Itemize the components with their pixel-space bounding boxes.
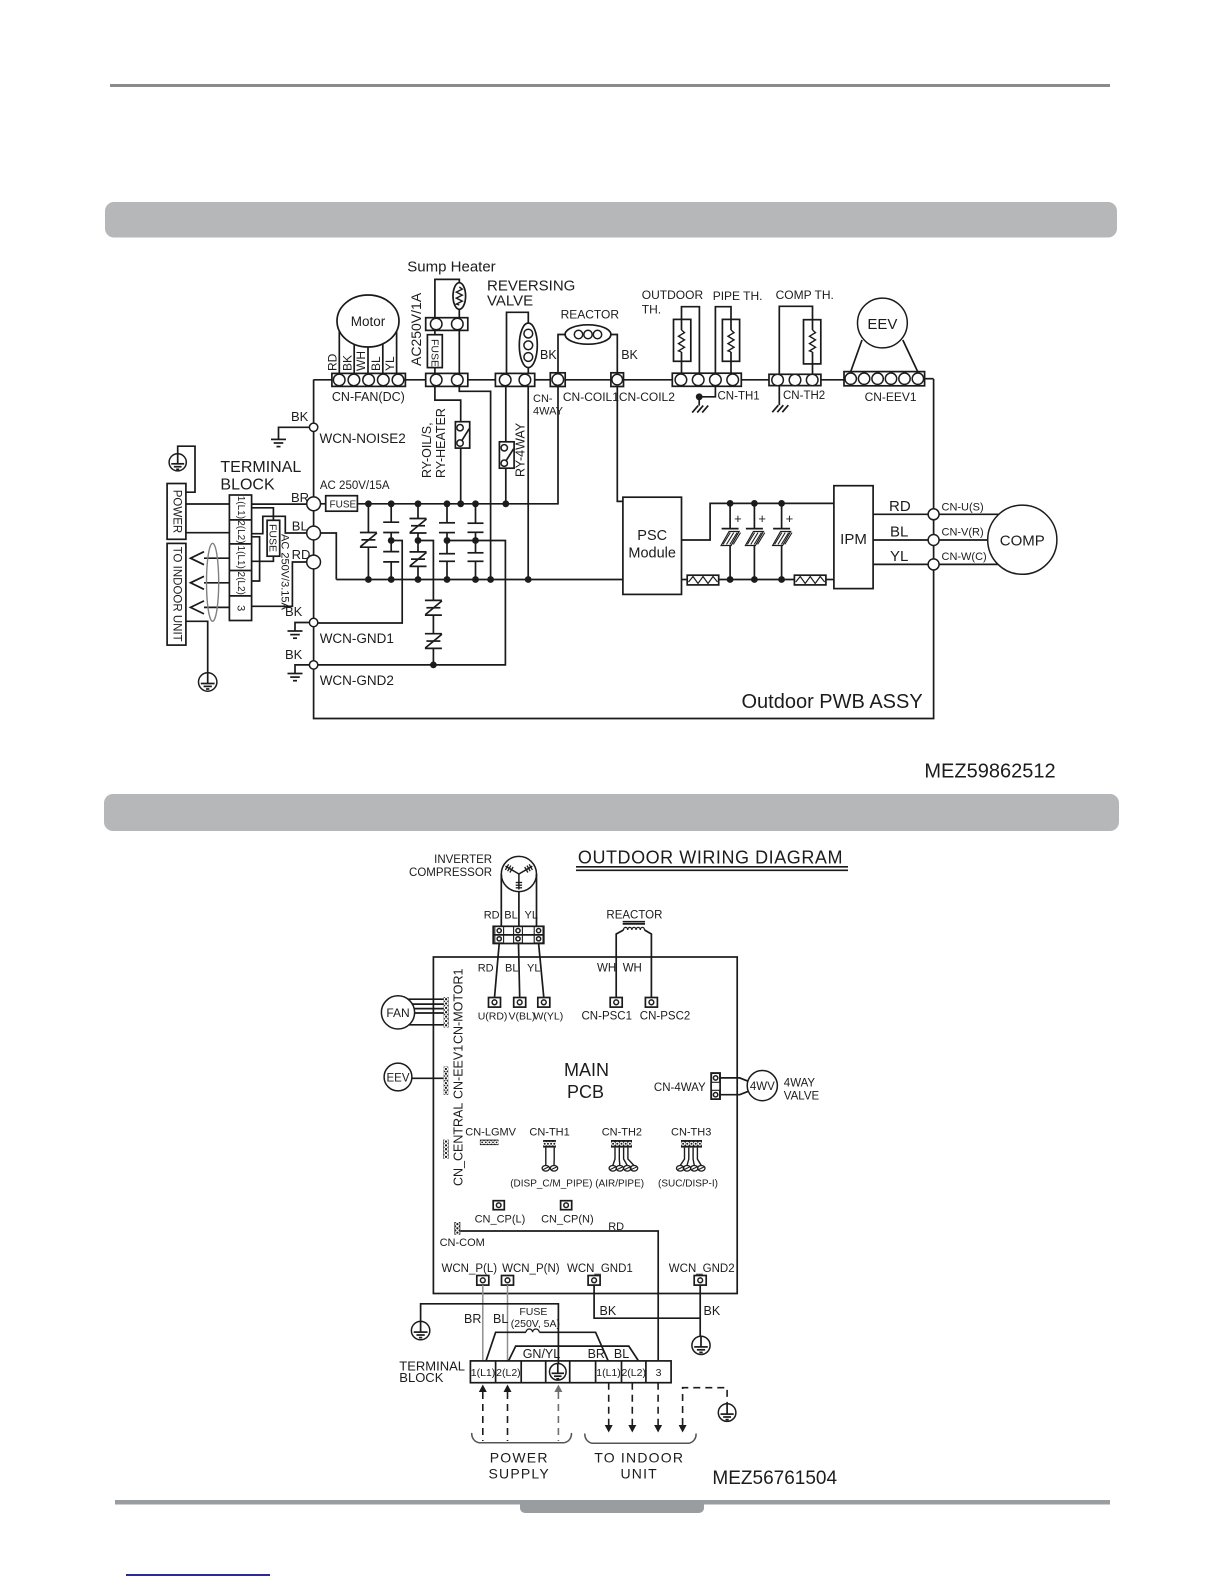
- svg-text:1(L1): 1(L1): [596, 1367, 621, 1379]
- wire BL to terminal: [507, 1285, 509, 1361]
- footer link line: [126, 1574, 270, 1576]
- wires to indoor unit with arrows: [204, 557, 229, 559]
- connector CN-LGMV: [480, 1140, 499, 1146]
- svg-text:+: +: [734, 511, 742, 526]
- svg-text:CN_CP(L): CN_CP(L): [475, 1214, 526, 1226]
- svg-text:RY-OIL/S,: RY-OIL/S,: [420, 422, 434, 478]
- MAIN PCB box: [433, 957, 737, 1294]
- svg-text:CN-LGMV: CN-LGMV: [465, 1126, 516, 1138]
- power supply arrows: [479, 1385, 487, 1393]
- PWB edge BL circle: [307, 526, 321, 540]
- relay RY-OIL/S RY-HEATER: [455, 422, 469, 448]
- wires FAN to CN-MOTOR1: [408, 998, 444, 1000]
- svg-text:BLOCK: BLOCK: [220, 477, 275, 494]
- to indoor arrows: [608, 1383, 610, 1425]
- wire mid row to WCN-GND2 line: [318, 541, 506, 665]
- wire reactor right to CN-COIL2: [611, 335, 617, 373]
- footer tab: [520, 1502, 704, 1513]
- wire relay2 to bus BR: [505, 468, 507, 504]
- wire terminal to BR node: [252, 503, 307, 505]
- svg-text:2(L2): 2(L2): [235, 572, 246, 595]
- svg-text:CN-W(C): CN-W(C): [942, 551, 987, 563]
- brace POWER SUPPLY: [472, 1433, 572, 1443]
- connector CN-4WAY: [495, 373, 534, 386]
- node CN-V(R): [928, 535, 939, 546]
- reactor L1: [565, 325, 611, 344]
- PWB edge BR circle: [307, 497, 321, 511]
- terminal block (top diagram): [229, 495, 251, 621]
- protective earth (GND wires): [692, 1336, 710, 1354]
- connector CN-MOTOR1: [444, 997, 449, 1028]
- svg-text:CN-PSC1: CN-PSC1: [582, 1011, 632, 1023]
- svg-text:(SUC/DISP-I): (SUC/DISP-I): [658, 1178, 718, 1189]
- svg-text:2(L2): 2(L2): [621, 1367, 646, 1379]
- node CN-U(S): [928, 509, 939, 520]
- connector CN-FAN(DC): [332, 373, 406, 386]
- svg-text:COMP TH.: COMP TH.: [776, 288, 834, 302]
- connector CN-TH2 (bottom) with sensors: [611, 1140, 632, 1148]
- svg-text:COMP: COMP: [1000, 533, 1045, 550]
- svg-text:WCN-NOISE2: WCN-NOISE2: [320, 431, 406, 446]
- wire CN-EEV1 to right edge: [925, 378, 934, 380]
- svg-text:4WAY: 4WAY: [784, 1078, 816, 1090]
- connector CN-COIL1: [550, 373, 565, 387]
- svg-text:Outdoor PWB ASSY: Outdoor PWB ASSY: [741, 691, 922, 713]
- svg-text:RY-HEATER: RY-HEATER: [434, 408, 448, 478]
- svg-text:CN-TH1: CN-TH1: [718, 391, 760, 403]
- svg-text:Module: Module: [628, 546, 676, 562]
- connector CN-TH3 with sensors: [681, 1140, 702, 1148]
- svg-text:1(L1): 1(L1): [471, 1367, 496, 1379]
- svg-text:BK: BK: [621, 348, 638, 362]
- TO INDOOR UNIT box: [167, 543, 186, 645]
- compressor terminal strip: [493, 926, 544, 943]
- wire fuse link L1: [486, 1332, 526, 1361]
- Outdoor PWB ASSY box outline: [314, 380, 934, 719]
- svg-text:YL: YL: [383, 356, 397, 371]
- wire relay1 to bus BR: [460, 448, 462, 504]
- svg-text:REACTOR: REACTOR: [606, 910, 662, 922]
- svg-text:WCN_P(L): WCN_P(L): [442, 1263, 498, 1275]
- fuse F2 AC250V/3.15A: [267, 520, 280, 556]
- svg-text:BL: BL: [890, 524, 908, 541]
- svg-text:BK: BK: [704, 1304, 721, 1318]
- svg-text:(250V, 5A): (250V, 5A): [511, 1318, 560, 1330]
- svg-text:BK: BK: [600, 1304, 617, 1318]
- svg-text:+: +: [786, 511, 794, 526]
- svg-text:BL: BL: [493, 1312, 508, 1326]
- FAN motor: [381, 996, 414, 1029]
- PWB edge RD circle: [307, 555, 321, 569]
- svg-text:BK: BK: [540, 348, 557, 362]
- EEV coil (top): [858, 298, 908, 348]
- bus BR (fuse output): [357, 387, 558, 504]
- svg-text:WCN-GND2: WCN-GND2: [320, 673, 394, 688]
- ground WCN-NOISE2: [279, 427, 310, 439]
- page top rule: [110, 84, 1110, 87]
- svg-text:W(YL): W(YL): [534, 1011, 564, 1023]
- connector row bus wire: [314, 379, 332, 381]
- node WCN-GND1: [309, 618, 317, 626]
- ground at CN-TH2: [778, 386, 780, 406]
- svg-text:YL: YL: [525, 910, 538, 922]
- connector CN-PSC2: [645, 998, 657, 1008]
- connector V(BL): [514, 998, 526, 1008]
- svg-text:REACTOR: REACTOR: [561, 308, 620, 322]
- svg-text:PIPE TH.: PIPE TH.: [713, 289, 763, 303]
- svg-text:CN_CENTRAL: CN_CENTRAL: [452, 1103, 466, 1186]
- dashed earth branch: [683, 1388, 728, 1425]
- connector W(YL): [538, 998, 550, 1008]
- connector CN_CP(L): [493, 1201, 504, 1210]
- wires EEV to CN-EEV1: [851, 340, 862, 372]
- svg-text:+: +: [758, 511, 766, 526]
- svg-text:BR: BR: [464, 1312, 481, 1326]
- wire mid node to WCN-GND1: [318, 541, 402, 624]
- connector CN-EEV1 (bottom): [444, 1067, 449, 1095]
- svg-text:OUTDOOR WIRING DIAGRAM: OUTDOOR WIRING DIAGRAM: [578, 848, 843, 868]
- IPM output wires RD BL YL: [873, 513, 928, 515]
- svg-text:BK: BK: [291, 409, 309, 424]
- connector CN-EEV1: [844, 372, 925, 386]
- svg-text:RD: RD: [326, 353, 340, 371]
- terminal block (bottom diagram): [470, 1361, 671, 1383]
- node CN-W(C): [928, 559, 939, 570]
- bus RD lower: [321, 533, 337, 580]
- earth wire bottom left: [186, 621, 208, 673]
- svg-text:FAN: FAN: [386, 1006, 409, 1020]
- L2 link loop: [252, 537, 260, 581]
- svg-text:CN-TH2: CN-TH2: [783, 390, 825, 402]
- svg-text:INVERTER: INVERTER: [434, 854, 492, 866]
- svg-text:WCN_GND1: WCN_GND1: [567, 1263, 633, 1275]
- svg-text:POWER: POWER: [490, 1449, 549, 1465]
- svg-text:EEV: EEV: [867, 316, 897, 333]
- svg-text:TH.: TH.: [642, 303, 661, 317]
- protective earth (dashed branch): [718, 1404, 736, 1422]
- svg-text:3: 3: [235, 605, 247, 611]
- svg-text:CN-COIL1: CN-COIL1: [563, 390, 619, 404]
- svg-text:AC 250V/15A: AC 250V/15A: [320, 480, 390, 492]
- 4-way valve 4WV: [747, 1071, 777, 1101]
- svg-text:U(RD): U(RD): [478, 1011, 508, 1023]
- node WCN-GND2: [309, 661, 317, 669]
- svg-text:(AIR/PIPE): (AIR/PIPE): [595, 1178, 644, 1189]
- wire cell2 to BL node: [252, 516, 307, 533]
- svg-text:CN_CP(N): CN_CP(N): [541, 1214, 594, 1226]
- svg-text:WCN_GND2: WCN_GND2: [669, 1263, 735, 1275]
- svg-text:MAIN: MAIN: [564, 1060, 609, 1080]
- section header bar 2: [104, 794, 1119, 831]
- svg-text:EEV: EEV: [386, 1073, 409, 1085]
- wire reactor left to CN-COIL1: [558, 335, 565, 373]
- svg-text:CN-EEV1: CN-EEV1: [452, 1045, 466, 1099]
- section header bar 1: [105, 202, 1117, 238]
- connector CN-4WAY (bottom): [711, 1073, 720, 1099]
- capacitor column 2: [446, 504, 448, 523]
- svg-text:GN/YL: GN/YL: [523, 1347, 561, 1361]
- ground WCN-GND1: [295, 623, 309, 632]
- svg-text:MEZ56761504: MEZ56761504: [712, 1468, 837, 1489]
- svg-text:Sump Heater: Sump Heater: [407, 259, 495, 276]
- svg-text:COMPRESSOR: COMPRESSOR: [409, 867, 492, 879]
- wires reactor to CN-PSC: [616, 930, 623, 998]
- svg-text:2(L2): 2(L2): [496, 1367, 521, 1379]
- svg-text:CN-MOTOR1: CN-MOTOR1: [452, 968, 466, 1044]
- svg-text:BK: BK: [340, 355, 354, 371]
- svg-text:4WV: 4WV: [750, 1081, 775, 1093]
- thermistor TH-PIPE: [722, 319, 739, 361]
- svg-text:FUSE: FUSE: [330, 500, 357, 511]
- protective earth (top left): [178, 446, 195, 492]
- svg-text:1(L1): 1(L1): [235, 546, 246, 569]
- svg-text:IPM: IPM: [840, 531, 867, 548]
- capacitor column 1: [390, 504, 392, 522]
- wire CN-COIL2 to PSC module: [617, 387, 623, 502]
- svg-text:YL: YL: [527, 963, 540, 975]
- svg-text:CN-COM: CN-COM: [440, 1237, 485, 1249]
- svg-text:Motor: Motor: [351, 314, 386, 329]
- wire WCN_GND2 BK: [699, 1285, 701, 1336]
- inverter compressor motor symbol: [501, 856, 536, 891]
- EEV coil (bottom): [384, 1063, 412, 1091]
- thermistor TH-COMP: [804, 320, 821, 364]
- svg-text:WCN-GND1: WCN-GND1: [320, 631, 394, 646]
- svg-text:BK: BK: [285, 604, 303, 619]
- svg-text:UNIT: UNIT: [620, 1466, 657, 1482]
- motor M1 (fan motor): [337, 295, 399, 347]
- node WCN-NOISE2: [309, 423, 317, 431]
- reactor core bars: [623, 921, 645, 923]
- svg-text:FUSE: FUSE: [429, 339, 441, 367]
- svg-text:RY-4WAY: RY-4WAY: [514, 422, 528, 477]
- wires to compressor: [939, 513, 999, 515]
- connector CN-COIL2: [611, 373, 624, 387]
- svg-text:WH: WH: [354, 351, 368, 371]
- svg-text:TO INDOOR UNIT: TO INDOOR UNIT: [171, 547, 183, 642]
- ground WCN-GND2: [295, 665, 309, 674]
- terminal earth symbol: [550, 1364, 567, 1381]
- varistor column 2 (series pair): [417, 504, 419, 519]
- wire GN/YL link L2: [509, 1346, 639, 1361]
- connector CN-TH2: [769, 374, 821, 385]
- svg-text:CN-FAN(DC): CN-FAN(DC): [332, 390, 405, 404]
- wires strip to PCB connectors: [495, 944, 500, 998]
- svg-text:CN-4WAY: CN-4WAY: [654, 1082, 706, 1094]
- svg-text:BR: BR: [588, 1347, 605, 1361]
- wire sump heater loop: [435, 279, 459, 317]
- svg-text:BL: BL: [504, 910, 517, 922]
- wires CN-4WAY to 4WV: [720, 1078, 748, 1081]
- wire CN-4WAY pin2 down to bus2: [527, 386, 529, 579]
- wire pin1 to relay RY-OIL: [435, 386, 461, 421]
- wires motor to CN-FAN(DC): [338, 332, 340, 374]
- svg-text:(DISP_C/M_PIPE): (DISP_C/M_PIPE): [510, 1178, 592, 1189]
- svg-text:BL: BL: [292, 519, 308, 534]
- svg-text:3: 3: [656, 1367, 662, 1379]
- svg-text:BLOCK: BLOCK: [399, 1370, 443, 1385]
- svg-text:POWER: POWER: [171, 490, 183, 533]
- wire heater to connector: [458, 309, 460, 317]
- wire EEV to CN-EEV1: [412, 1077, 444, 1079]
- svg-text:WH: WH: [623, 963, 642, 975]
- connector CN-TH1: [672, 373, 741, 386]
- fuse F (250V 5A) symbol: [526, 1329, 539, 1332]
- svg-text:CN-U(S): CN-U(S): [942, 502, 984, 514]
- POWER box: [167, 484, 186, 540]
- svg-text:FUSE: FUSE: [267, 524, 279, 552]
- svg-text:FUSE: FUSE: [519, 1306, 547, 1318]
- svg-text:BL: BL: [369, 356, 383, 371]
- wire mid node to varistor pair: [418, 541, 433, 601]
- svg-text:CN-TH3: CN-TH3: [671, 1126, 711, 1138]
- sump heater connector: [426, 318, 468, 331]
- svg-text:WCN_P(N): WCN_P(N): [502, 1263, 560, 1275]
- reversing valve bracket wire: [507, 312, 529, 373]
- compressor COMP: [988, 505, 1057, 574]
- svg-text:1(L1): 1(L1): [235, 496, 246, 519]
- reactor winding: [624, 927, 645, 930]
- IPM U3: [834, 486, 873, 589]
- brace TO INDOOR UNIT: [585, 1434, 696, 1444]
- svg-text:BK: BK: [285, 647, 303, 662]
- svg-text:VALVE: VALVE: [784, 1091, 820, 1103]
- svg-text:RD: RD: [484, 910, 500, 922]
- svg-text:CN-COIL2: CN-COIL2: [619, 390, 675, 404]
- protective earth (power side): [411, 1321, 429, 1339]
- svg-text:BL: BL: [505, 963, 518, 975]
- svg-text:CN-: CN-: [533, 393, 553, 405]
- connector CN-TH1 (bottom) with sensors: [543, 1140, 556, 1148]
- ground at CN-TH1: [699, 386, 715, 405]
- wire cell5 to RD node: [252, 562, 307, 606]
- wire cell1 to fuse3 top: [252, 508, 274, 521]
- wire BR to terminal: [482, 1285, 484, 1361]
- svg-text:PCB: PCB: [567, 1082, 604, 1102]
- relay RY-4WAY: [499, 442, 514, 468]
- fuse F3 AC250V/15A: [321, 503, 326, 505]
- varistor pair to WCN-GND2: [425, 599, 442, 601]
- bottom rail PSC to IPM: [682, 579, 688, 581]
- svg-text:RD: RD: [478, 963, 494, 975]
- wires POWER to terminal: [186, 503, 230, 505]
- svg-text:YL: YL: [890, 548, 908, 565]
- connector CN-COM: [454, 1222, 460, 1235]
- wire WCN_GND1 BK: [594, 1285, 701, 1318]
- svg-text:VALVE: VALVE: [487, 293, 533, 310]
- svg-text:OUTDOOR: OUTDOOR: [642, 288, 704, 302]
- connector CN_CP(N): [561, 1201, 572, 1210]
- svg-text:2(L2): 2(L2): [235, 520, 246, 543]
- footer rule bar: [115, 1500, 1110, 1505]
- inrush resistor R2: [794, 575, 826, 585]
- svg-text:TO INDOOR: TO INDOOR: [594, 1449, 684, 1465]
- svg-text:CN-TH1: CN-TH1: [529, 1126, 569, 1138]
- svg-text:TERMINAL: TERMINAL: [220, 459, 301, 476]
- wire earth to terminal: [421, 1304, 559, 1364]
- svg-text:CN-TH2: CN-TH2: [602, 1126, 642, 1138]
- connector CN_CENTRAL: [443, 1140, 448, 1159]
- cable bundle ellipse: [207, 543, 219, 621]
- wire PSC to cap rail: [682, 503, 834, 540]
- svg-text:PSC: PSC: [637, 528, 667, 544]
- svg-text:4WAY: 4WAY: [533, 406, 564, 418]
- svg-text:CN-V(R): CN-V(R): [942, 527, 984, 539]
- heater element R-SUMP: [453, 283, 466, 310]
- svg-text:V(BL): V(BL): [509, 1011, 536, 1023]
- wire CN-4WAY pin1 to relay RY-4WAY: [505, 386, 507, 441]
- wire pin2 to cap bus: [459, 386, 490, 579]
- fuse F1 AC250V/1A: [434, 330, 436, 334]
- wire sump pin2 down: [458, 330, 460, 373]
- svg-text:CN-PSC2: CN-PSC2: [640, 1011, 690, 1023]
- connector CN-PSC1: [610, 998, 622, 1008]
- wire CN-COM RD to terminal 3: [460, 1231, 658, 1361]
- svg-text:BL: BL: [614, 1347, 629, 1361]
- svg-text:AC250V/1A: AC250V/1A: [408, 292, 424, 366]
- connector U(RD): [489, 998, 501, 1008]
- svg-text:SUPPLY: SUPPLY: [488, 1466, 549, 1482]
- inrush resistor R1: [687, 575, 719, 585]
- connector sump/relay feed: [426, 373, 468, 386]
- wires compressor to terminal strip: [500, 874, 502, 926]
- protective earth (bottom left): [199, 673, 217, 691]
- PSC Module U2: [623, 497, 682, 594]
- varistor column 1: [367, 504, 369, 533]
- capacitor column 3: [475, 504, 477, 523]
- solenoid coil L-4WAY: [519, 323, 537, 368]
- svg-text:RD: RD: [889, 498, 911, 515]
- svg-text:CN-EEV1: CN-EEV1: [865, 390, 917, 404]
- electrolytic capacitors C-DC x3: [729, 503, 731, 528]
- svg-text:WH: WH: [597, 963, 616, 975]
- svg-text:AC 250V/3.15A: AC 250V/3.15A: [279, 534, 291, 610]
- thermistor TH-OUTDOOR: [674, 319, 691, 361]
- svg-text:MEZ59862512: MEZ59862512: [924, 761, 1055, 783]
